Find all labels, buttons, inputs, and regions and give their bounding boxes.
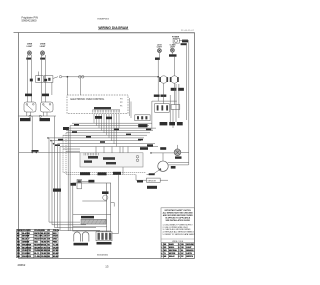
harness drop wire 6: [66, 133, 136, 175]
connector block J4: [96, 232, 112, 241]
indicator light B3: [174, 145, 181, 156]
wire bar drop c: [111, 147, 113, 153]
EOC label leader drop a: [129, 98, 131, 116]
svg-text:316545300: 316545300: [97, 254, 109, 256]
wire drop to EOC pin 1: [66, 77, 68, 95]
wire label latch: [160, 147, 166, 150]
wire lamp B2 left drop: [40, 55, 42, 102]
svg-text:EI30EF55G: EI30EF55G: [98, 19, 110, 21]
svg-text:8: 8: [179, 253, 180, 255]
wire left lower run: [19, 151, 80, 153]
legend table grid: [161, 243, 195, 259]
junction dot bus J3: [53, 143, 55, 145]
fuse label: [71, 183, 76, 186]
connector circle on neutral run b: [39, 115, 41, 117]
relay K2 contacts: [157, 105, 168, 110]
harness drop wire 4: [60, 147, 100, 231]
wire label below light B3: [175, 156, 182, 158]
wire label below S4: [40, 118, 51, 121]
convection motor M1: [158, 161, 168, 171]
wire relay top run: [152, 100, 177, 102]
bake element E2: [82, 232, 89, 242]
terminal block P1: [80, 153, 143, 167]
EOC pin drop wires: [94, 114, 119, 147]
oven light B2 label: [40, 44, 47, 48]
label at EOC lower left: [63, 127, 69, 130]
wire connector drop 4: [110, 230, 112, 233]
relay K2: [155, 104, 170, 113]
lock motor M3 label: [102, 191, 109, 194]
door switch S3: [24, 102, 36, 112]
svg-text:BL: BL: [181, 250, 183, 252]
svg-text:PW: PW: [17, 253, 20, 255]
svg-text:9: 9: [161, 256, 162, 258]
wire sensor feed: [136, 175, 147, 181]
junction dot motor lead: [159, 168, 161, 170]
wire label below B4: [155, 58, 160, 60]
svg-text:BROIL: BROIL: [169, 247, 174, 249]
harness drop wire 5: [63, 135, 146, 172]
thermal switch S2: [44, 76, 53, 83]
junction dot on lower run: [36, 152, 38, 154]
wire oven box bottom run: [73, 226, 107, 228]
svg-text:BLUE: BLUE: [22, 239, 28, 241]
wire label below S3: [20, 118, 31, 121]
svg-text:TN-WH: TN-WH: [34, 250, 41, 252]
sensor lower label: [147, 186, 157, 189]
relay lower label b: [169, 122, 175, 125]
legend table text: [161, 243, 194, 258]
wire bar drop d: [119, 147, 121, 153]
svg-text:VW: VW: [17, 250, 20, 252]
svg-text:NEUTRAL: NEUTRAL: [169, 249, 177, 252]
thermal switch S2 contact label: [45, 79, 48, 82]
thermal switch S2 contact: [48, 78, 50, 81]
label left of sensor box: [137, 180, 143, 182]
element labels: [74, 243, 89, 246]
wire drop long left: [54, 116, 56, 228]
bus end label a: [140, 147, 148, 150]
wire stub S2 down: [51, 82, 53, 95]
svg-text:YL-GN: YL-GN: [41, 236, 47, 238]
latch switch S5: [170, 76, 179, 83]
svg-text:RW: RW: [28, 244, 31, 246]
svg-text:22-44-15-07: 22-44-15-07: [181, 30, 194, 32]
wire label on dotted run c: [113, 172, 121, 175]
fuse F1: [77, 180, 82, 189]
svg-text:5: 5: [179, 244, 180, 246]
harness drop wire 3: [55, 227, 97, 229]
hidden bake element bar: [81, 219, 106, 224]
svg-text:3: 3: [161, 250, 162, 252]
svg-text:ELECTRONIC OVEN CONTROL: ELECTRONIC OVEN CONTROL: [71, 99, 106, 101]
motor label: [171, 166, 176, 169]
svg-text:GRAY: GRAY: [53, 235, 59, 238]
junction dot lower run left: [31, 152, 33, 154]
door switch S3 label: [25, 94, 32, 97]
oven light B2: [40, 51, 44, 55]
wire label on lower run: [32, 150, 39, 152]
harness drop wire 1: [49, 138, 80, 222]
wire right cluster drop a: [151, 101, 153, 130]
wire right cluster drop g: [178, 84, 180, 118]
svg-text:BR-BK: BR-BK: [53, 256, 59, 258]
svg-text:WHITE: WHITE: [34, 233, 40, 235]
thermal switch S1 contact: [38, 78, 40, 81]
connector block label: [97, 242, 112, 245]
wire right cluster drop e: [172, 109, 174, 128]
broil element E1: [74, 232, 81, 242]
svg-text:TW: TW: [28, 250, 31, 252]
lock motor M3: [103, 195, 108, 200]
wire label on harness bundle: [53, 189, 61, 192]
wire latch light to border riser: [181, 151, 189, 153]
label below EOC pins: [95, 116, 102, 119]
notes list block: [163, 224, 196, 236]
wire motor top stub: [162, 153, 164, 161]
lock lamp B4: [157, 49, 161, 53]
wire right cluster drop d: [169, 95, 171, 125]
interlock relay label: [138, 124, 147, 127]
svg-text:29662: 29662: [18, 263, 26, 267]
wire neutral run below switches: [18, 112, 56, 116]
latch switch label: [178, 88, 184, 91]
electronic oven control EOC: [67, 95, 128, 114]
oven cavity box: [73, 183, 111, 231]
svg-text:TN-RD: TN-RD: [41, 242, 47, 244]
svg-text:YW: YW: [28, 256, 31, 258]
junction dot latch wire: [150, 152, 152, 154]
oven light B1: [27, 51, 31, 55]
wire stub S1 up: [37, 72, 39, 76]
svg-text:2: 2: [161, 247, 162, 249]
svg-text:GY-RD: GY-RD: [41, 247, 47, 249]
notes text block: [163, 209, 194, 222]
wire right cluster drop f: [175, 84, 177, 122]
wire drop mid right: [122, 147, 124, 175]
wire lamp B1 right drop: [30, 55, 32, 102]
junction dot bus J2: [50, 140, 52, 142]
legend table divider: [161, 238, 195, 240]
door switch S4 label: [42, 94, 49, 97]
wire power to riser: [179, 40, 189, 42]
door switch S4: [41, 102, 54, 112]
wire lamp B4 drop: [158, 53, 159, 77]
relay lower label a: [160, 122, 168, 125]
junction dot bus J1: [47, 137, 49, 139]
svg-text:0: 0: [179, 256, 180, 258]
relay area label a: [154, 95, 160, 97]
svg-text:SWITCH: SWITCH: [186, 256, 193, 258]
wire drop from neutral run: [31, 116, 33, 152]
relay area label b: [161, 95, 167, 97]
bus end label b: [147, 144, 153, 146]
svg-text:BK-RD: BK-RD: [41, 233, 47, 235]
junction dot on bus L1: [67, 76, 69, 78]
EOC label leader drop b: [130, 102, 132, 119]
svg-text:GROUND: GROUND: [186, 244, 194, 246]
wire fuse link: [82, 180, 95, 182]
wire connector drop 1: [98, 230, 100, 233]
wire label WH on lamp B1: [26, 58, 31, 60]
power supply box K1: [173, 38, 179, 43]
wire motor feed lower: [168, 164, 188, 166]
wire color code table: [17, 229, 59, 257]
harness drop wire 2: [52, 141, 86, 225]
power terminal label2: [181, 43, 187, 45]
relay lower label c: [177, 122, 183, 125]
header publisher text: [22, 15, 38, 22]
harness drop wire 3b: [57, 144, 59, 228]
wire motor feed: [168, 161, 189, 163]
wire bus end drop: [157, 77, 159, 101]
svg-text:SENSOR: SENSOR: [148, 180, 157, 182]
wire oven box right riser: [111, 175, 119, 234]
svg-text:RD-BK: RD-BK: [53, 253, 59, 255]
EOC pin number strip: [94, 107, 111, 109]
svg-text:OR-BK: OR-BK: [53, 247, 59, 249]
harness drop wire 8: [69, 126, 71, 231]
node A junction circle: [59, 76, 61, 78]
wire riser second: [185, 44, 187, 120]
svg-text:MOTOR: MOTOR: [169, 253, 176, 255]
svg-text:LIGHT: LIGHT: [27, 46, 34, 48]
lock lamp label: [157, 44, 163, 48]
relay K3: [171, 105, 180, 110]
clean lamp B5: [170, 48, 174, 52]
wire label on dotted run a: [80, 172, 90, 175]
svg-text:YL-BK: YL-BK: [53, 244, 59, 246]
svg-text:7: 7: [179, 250, 180, 252]
sheet border frame: [14, 33, 195, 259]
wire harness bus band: [49, 123, 158, 146]
svg-text:6: 6: [179, 247, 180, 249]
power terminal label: [182, 40, 188, 43]
wire bar drop a: [95, 147, 97, 153]
wire connector drop 2: [102, 230, 104, 233]
wire short seg a: [63, 148, 80, 150]
svg-text:5995421800: 5995421800: [22, 18, 37, 22]
thermal switch S1: [36, 76, 44, 83]
latch motor label: [171, 88, 177, 91]
svg-text:1: 1: [161, 244, 162, 246]
connector circle on neutral run a: [29, 115, 31, 117]
svg-text:YL: YL: [164, 253, 166, 255]
wire color code table text: [17, 230, 60, 258]
oven light B1 label: [27, 44, 34, 48]
svg-text:13: 13: [105, 265, 109, 269]
svg-text:RELAY: RELAY: [169, 255, 175, 258]
oven sensor RTD label: [149, 173, 155, 175]
wire through lock motor: [82, 200, 106, 202]
svg-text:PINK: PINK: [53, 242, 58, 244]
wire border riser: [188, 41, 190, 165]
wire to latch light: [151, 152, 174, 154]
wire lamp B1 left drop: [27, 55, 29, 102]
wire lamp B2 right drop: [44, 55, 46, 102]
wire bus L1 top: [62, 76, 159, 78]
thermal switch S1 contact label: [30, 79, 33, 82]
svg-text:YL-WH: YL-WH: [34, 256, 40, 258]
notes legend box: [161, 208, 195, 259]
svg-text:LIGHT: LIGHT: [40, 46, 47, 48]
svg-text:VT-BK: VT-BK: [41, 239, 47, 241]
svg-text:GY-BK: GY-BK: [53, 250, 59, 252]
svg-text:PK-BK: PK-BK: [41, 253, 47, 255]
wire right cluster drop b: [163, 83, 165, 103]
svg-text:BW: BW: [17, 247, 20, 249]
wire short seg b: [66, 150, 80, 152]
wire label below B5: [169, 54, 177, 56]
svg-text:4: 4: [161, 252, 162, 255]
wire from S2 to node A: [53, 77, 58, 79]
interlock relay K4: [135, 115, 150, 121]
wire drop to EOC pin 4: [80, 78, 82, 95]
svg-text:GW: GW: [28, 247, 31, 249]
wire fuse link label: [88, 180, 94, 183]
wire bar drop b: [103, 147, 105, 153]
svg-text:SEE INSTALLATION GUIDE: SEE INSTALLATION GUIDE: [165, 219, 190, 222]
latch motor M2: [159, 76, 168, 83]
wire sensor right stub: [160, 179, 168, 181]
wire motor diagonal lead: [147, 169, 161, 174]
svg-text:5. REFER TO SERVICE DATA SHEET: 5. REFER TO SERVICE DATA SHEET: [163, 233, 196, 236]
wire labels on bus band: [55, 124, 151, 146]
label below EOC pins b: [106, 117, 112, 120]
harness drop wire 7: [67, 128, 69, 231]
hidden bake element label: [81, 216, 94, 219]
connector plug P5 on bus L1: [81, 76, 84, 79]
wire label on dotted run b: [98, 172, 107, 175]
wire lamp B5 drop: [172, 52, 174, 75]
wire connector drop 3: [106, 230, 108, 233]
svg-text:LATCH: LATCH: [186, 252, 192, 255]
EOC pin comb: [93, 110, 121, 113]
wire right cluster drop c: [173, 83, 175, 104]
clean lamp label: [170, 43, 177, 48]
svg-text:WIRING DIAGRAM: WIRING DIAGRAM: [98, 26, 128, 30]
oven sensor RTD box: [147, 178, 161, 182]
wire label WH on lamp B2: [40, 58, 45, 60]
svg-text:SENSOR: SENSOR: [186, 250, 194, 252]
wire bar drop e: [127, 147, 129, 153]
junction dot bus L1 right: [157, 76, 159, 78]
connector plug P4 on bus L1: [79, 76, 82, 79]
svg-text:ORG: ORG: [53, 239, 58, 241]
